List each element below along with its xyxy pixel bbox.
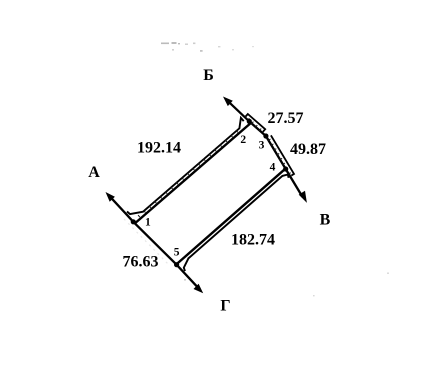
arrowhead toward G: [194, 284, 204, 294]
station 5 dot: [174, 262, 179, 267]
side 1-2 offset line with end hooks: [127, 118, 244, 214]
side 1-2 main line: [135, 123, 251, 223]
svg-text:В: В: [320, 212, 331, 229]
scan noise speckles: [184, 273, 389, 297]
scan noise dust along line 1-5: [124, 219, 170, 266]
svg-text:49.87: 49.87: [290, 141, 326, 158]
station 2 dot: [247, 119, 252, 124]
side 2-3 main line: [249, 121, 266, 136]
side 3-4 hatch marks: [268, 139, 291, 174]
station 4 dot: [283, 166, 288, 171]
station 3 dot: [263, 133, 268, 138]
svg-text:76.63: 76.63: [123, 254, 159, 271]
wire line A-1-5-G main straight line: [111, 197, 199, 288]
side 2-3 offset line with end hooks: [246, 114, 266, 132]
svg-text:192.14: 192.14: [137, 140, 181, 157]
side 3-4 offset line with end hook: [271, 135, 294, 175]
svg-text:4: 4: [270, 162, 276, 174]
arrowhead toward V: [299, 191, 307, 203]
svg-text:Б: Б: [203, 67, 214, 84]
side 3-4 main line continuing to arrow V: [266, 136, 303, 197]
arrowhead toward A: [106, 192, 115, 202]
side 1-2 hatch marks: [138, 130, 238, 217]
wire line B(Б) arrow from station 2: [229, 102, 250, 122]
arrowhead toward B(Б): [223, 97, 233, 107]
svg-text:Г: Г: [220, 297, 230, 314]
svg-text:27.57: 27.57: [268, 110, 304, 127]
svg-text:182.74: 182.74: [231, 231, 275, 248]
svg-text:3: 3: [259, 140, 265, 152]
scan noise top smudge: [161, 42, 254, 52]
svg-text:2: 2: [240, 134, 246, 146]
side 4-5 main line: [176, 169, 285, 265]
svg-text:5: 5: [174, 247, 180, 259]
station 1 dot: [131, 219, 136, 224]
svg-text:1: 1: [145, 217, 151, 229]
side 2-3 hatch marks: [248, 118, 262, 131]
svg-text:А: А: [88, 164, 100, 181]
side 4-5 offset line with end hooks: [184, 175, 289, 272]
